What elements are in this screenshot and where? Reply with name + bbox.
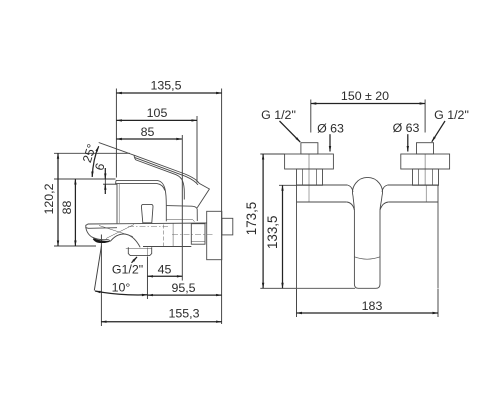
svg-text:10°: 10°: [112, 281, 131, 295]
svg-text:25°: 25°: [80, 142, 99, 164]
svg-text:G 1/2": G 1/2": [434, 108, 469, 122]
svg-text:85: 85: [141, 125, 155, 139]
svg-text:Ø 63: Ø 63: [393, 121, 420, 135]
svg-text:6: 6: [92, 161, 107, 172]
svg-text:45: 45: [158, 262, 172, 276]
svg-text:105: 105: [147, 106, 168, 120]
svg-text:G 1/2": G 1/2": [261, 108, 296, 122]
svg-text:135,5: 135,5: [150, 79, 181, 93]
svg-text:133,5: 133,5: [265, 216, 280, 250]
svg-text:G1/2": G1/2": [112, 263, 143, 277]
svg-text:173,5: 173,5: [244, 202, 259, 236]
svg-text:Ø 63: Ø 63: [317, 122, 344, 136]
svg-text:120,2: 120,2: [42, 183, 56, 214]
svg-text:183: 183: [362, 299, 383, 313]
svg-text:150 ± 20: 150 ± 20: [341, 89, 389, 103]
svg-text:95,5: 95,5: [171, 281, 195, 295]
svg-text:88: 88: [60, 201, 74, 215]
svg-text:155,3: 155,3: [168, 307, 199, 321]
